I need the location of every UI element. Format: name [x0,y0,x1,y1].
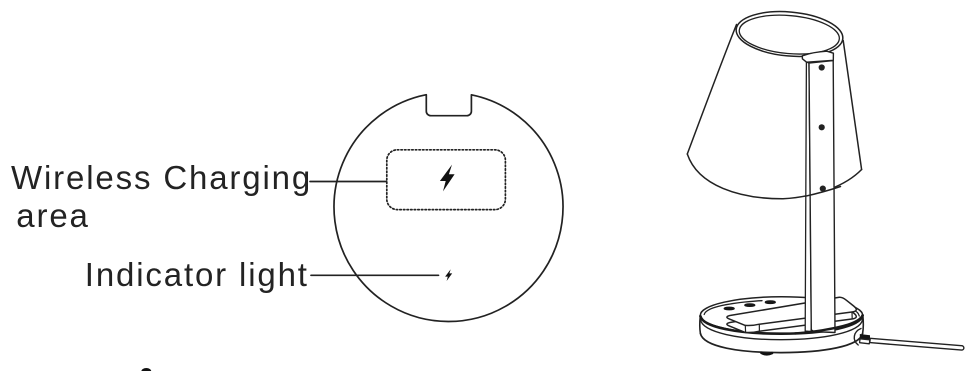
lamp: shade left side [687,25,736,155]
lamp: cable boot curve [854,329,861,346]
lamp base: front arc over post bottom [795,315,863,333]
label: Indicator light [85,258,309,291]
lamp: post top cap [802,51,833,62]
lamp base: buttons [725,301,776,309]
indicator light small bolt [445,269,452,281]
wireless charging area dotted rectangle [387,150,506,210]
lamp: shade top opening outer rim [734,7,844,60]
label: Wireless Charging area [11,161,312,194]
lamp: shade right side [843,41,861,170]
lamp: shade bottom arc crossing post [806,187,841,197]
lamp base: top ellipse front thick arc [700,315,862,333]
lamp: post body [805,62,811,332]
lightning bolt icon (large, in dotted rect) [440,165,455,192]
partial black dot at bottom edge [141,368,151,371]
lamp: plate corner tangent edges [745,312,852,332]
lamp base: foot [762,353,773,354]
lamp: shade top opening inner rim [738,11,841,58]
lamp base: inner rim left arc [704,301,762,315]
lamp base: side seam arc [700,320,862,340]
charging base top-view circle with notch [334,95,563,322]
lamp base: top ellipse [700,297,862,334]
lamp: cable connector block [860,339,870,344]
lamp: shade bottom edge arc [687,154,861,199]
leader line: Wireless Charging area [310,181,387,183]
lamp: charging pad top face [727,297,856,325]
lamp: charging pad slab lower face [727,304,856,332]
lamp: power cable [870,338,964,350]
lamp base: left side wall edge [699,316,702,334]
lamp: cable connector dark band [860,334,870,340]
lamp base: right side wall edge [862,315,865,334]
lamp base: bottom silhouette arc [700,334,862,353]
lamp base: inner rim right arc [852,309,859,316]
lamp: post screws [819,64,826,191]
lamp: post foot shadow [811,329,817,333]
leader line: Indicator light [311,274,439,276]
